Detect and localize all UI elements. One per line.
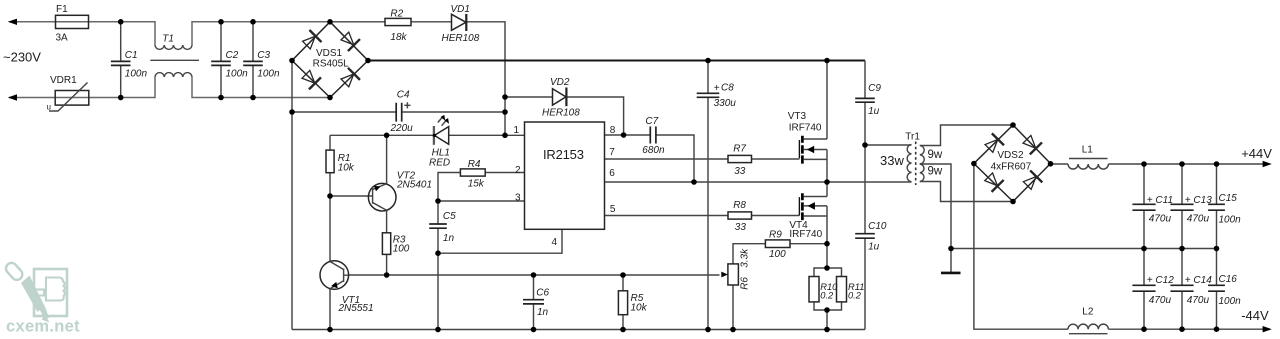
svg-text:IRF740: IRF740	[789, 123, 822, 134]
svg-text:R2: R2	[390, 9, 403, 20]
svg-text:C3: C3	[257, 50, 270, 61]
svg-text:2N5401: 2N5401	[396, 180, 432, 191]
svg-text:+ C13: + C13	[1185, 195, 1212, 206]
svg-text:100n: 100n	[257, 68, 280, 79]
svg-text:4: 4	[552, 237, 558, 248]
svg-text:VD1: VD1	[451, 4, 470, 15]
svg-text:100n: 100n	[125, 68, 148, 79]
svg-text:2N5551: 2N5551	[338, 303, 374, 314]
svg-text:1: 1	[514, 125, 520, 136]
svg-text:100: 100	[393, 243, 410, 254]
svg-text:HER108: HER108	[542, 108, 580, 119]
svg-text:VDS1: VDS1	[316, 48, 343, 59]
svg-text:15k: 15k	[468, 178, 485, 189]
svg-text:C9: C9	[868, 83, 881, 94]
svg-text:+ C11: + C11	[1147, 195, 1173, 206]
svg-text:Tr1: Tr1	[905, 132, 920, 143]
svg-text:F1: F1	[56, 4, 68, 15]
svg-text:L1: L1	[1082, 145, 1094, 156]
svg-text:8: 8	[610, 125, 616, 136]
svg-text:3.3k: 3.3k	[740, 248, 751, 268]
svg-text:1u: 1u	[868, 106, 880, 117]
svg-text:RED: RED	[429, 158, 450, 169]
svg-text:220u: 220u	[390, 123, 414, 134]
svg-text:2: 2	[515, 165, 521, 176]
svg-text:C4: C4	[397, 89, 410, 100]
svg-text:cxem.net: cxem.net	[6, 318, 80, 336]
svg-text:VT3: VT3	[788, 111, 807, 122]
svg-text:+44V: +44V	[1241, 146, 1272, 161]
svg-text:1u: 1u	[868, 242, 880, 253]
svg-text:C15: C15	[1219, 193, 1238, 204]
svg-text:R7: R7	[733, 144, 746, 155]
svg-text:C2: C2	[226, 50, 239, 61]
svg-text:HER108: HER108	[442, 33, 480, 44]
svg-text:IR2153: IR2153	[543, 147, 584, 162]
svg-text:680n: 680n	[642, 145, 665, 156]
svg-text:C5: C5	[443, 211, 456, 222]
svg-text:100n: 100n	[226, 68, 249, 79]
svg-text:C10: C10	[868, 221, 887, 232]
svg-text:L2: L2	[1082, 307, 1094, 318]
svg-text:1n: 1n	[443, 233, 455, 244]
svg-text:+ C14: + C14	[1185, 275, 1212, 286]
svg-text:9w: 9w	[928, 149, 943, 161]
svg-text:330u: 330u	[714, 98, 737, 109]
svg-text:100n: 100n	[1219, 296, 1242, 307]
svg-text:470u: 470u	[1149, 295, 1172, 306]
svg-text:C7: C7	[645, 116, 658, 127]
svg-text:33w: 33w	[880, 153, 904, 168]
svg-text:VDR1: VDR1	[50, 75, 77, 86]
svg-text:u: u	[47, 103, 51, 112]
svg-text:+ C12: + C12	[1147, 275, 1174, 286]
svg-text:C16: C16	[1219, 274, 1238, 285]
svg-text:10k: 10k	[631, 302, 648, 313]
svg-text:470u: 470u	[1187, 295, 1210, 306]
svg-text:100n: 100n	[1219, 214, 1242, 225]
svg-text:33: 33	[734, 166, 746, 177]
svg-text:4xFR607: 4xFR607	[991, 161, 1032, 172]
svg-text:VDS2: VDS2	[997, 150, 1024, 161]
svg-text:T1: T1	[162, 33, 174, 44]
svg-text:RS405L: RS405L	[313, 59, 350, 70]
svg-text:C8: C8	[721, 83, 734, 94]
svg-text:0.2: 0.2	[820, 291, 834, 301]
svg-text:33: 33	[735, 222, 747, 233]
svg-text:470u: 470u	[1149, 213, 1172, 224]
svg-text:VD2: VD2	[550, 77, 570, 88]
svg-text:3: 3	[515, 193, 521, 204]
svg-text:~230V: ~230V	[3, 50, 41, 65]
svg-text:7: 7	[609, 147, 615, 158]
svg-text:9w: 9w	[928, 166, 943, 178]
svg-text:0.2: 0.2	[848, 291, 862, 301]
svg-text:6: 6	[609, 168, 615, 179]
svg-text:18k: 18k	[390, 32, 407, 43]
svg-text:3A: 3A	[56, 32, 69, 43]
svg-text:+: +	[714, 83, 720, 94]
svg-text:100: 100	[769, 249, 786, 260]
svg-text:1n: 1n	[537, 307, 549, 318]
svg-text:R9: R9	[769, 230, 782, 241]
svg-text:IRF740: IRF740	[789, 229, 822, 240]
svg-text:R6: R6	[740, 277, 751, 290]
svg-text:5: 5	[610, 204, 616, 215]
svg-text:470u: 470u	[1187, 213, 1210, 224]
svg-text:C6: C6	[536, 287, 549, 298]
svg-text:10k: 10k	[338, 163, 355, 174]
svg-text:R4: R4	[468, 159, 481, 170]
svg-text:C1: C1	[125, 50, 138, 61]
svg-text:-44V: -44V	[1241, 308, 1269, 323]
svg-text:R8: R8	[733, 200, 746, 211]
